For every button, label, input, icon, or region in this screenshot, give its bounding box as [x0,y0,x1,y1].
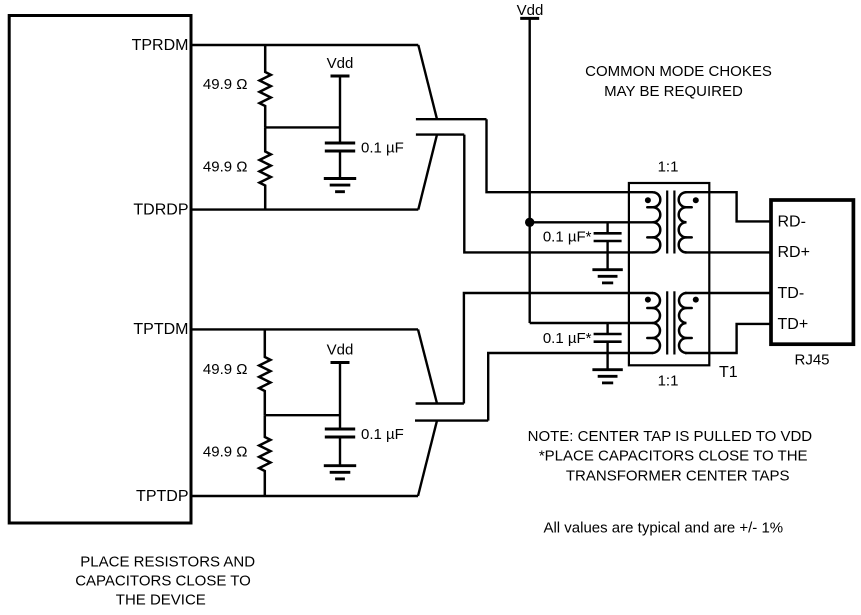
svg-text:TPTDM: TPTDM [133,321,188,338]
wire C3 to ground [606,241,608,270]
capacitor C2 0.1uF [325,428,355,431]
svg-text:MAY BE REQUIRED: MAY BE REQUIRED [604,83,743,100]
phase dot lower secondary [693,297,699,303]
svg-text:Vdd: Vdd [327,342,354,359]
wire TD+ jog [685,324,772,353]
svg-text:RD+: RD+ [778,244,810,261]
svg-text:TD+: TD+ [778,316,809,333]
resistor R3 49.9 ohm [259,329,270,415]
transformer T1 box [629,183,709,365]
IC device box [9,16,191,524]
svg-text:CAPACITORS CLOSE TO: CAPACITORS CLOSE TO [75,572,251,589]
svg-text:TPTDP: TPTDP [136,488,188,505]
T1 lower core [666,291,668,354]
T1 upper core [666,191,668,254]
wire stub1 to T1 primary top [487,119,654,192]
svg-text:0.1 µF*: 0.1 µF* [543,229,592,246]
svg-text:PLACE RESISTORS AND: PLACE RESISTORS AND [80,553,255,570]
wire node R3-R4 to C2 [265,414,340,416]
wire stub4 to T1 lower primary bottom [488,353,653,421]
svg-text:Vdd: Vdd [517,2,544,19]
Vdd symbol top [520,17,539,20]
choke stub lower-1 [416,402,464,404]
svg-text:RD-: RD- [778,214,806,231]
resistor R2 49.9 ohm [260,127,271,209]
ground C3 [592,268,622,271]
wire TPTDP diagonal [418,421,437,496]
wire tap to C4 [606,323,608,334]
svg-text:1:1: 1:1 [658,159,679,176]
svg-text:NOTE: CENTER TAP IS PULLED TO: NOTE: CENTER TAP IS PULLED TO VDD [528,428,813,445]
T1 lower primary winding [653,293,661,353]
wire C1 to ground [339,151,341,179]
resistor R1 49.9 ohm [260,45,271,127]
wire TPTDM [191,328,418,330]
wire upper center tap [530,221,653,223]
phase dot upper primary [645,197,651,203]
choke stub upper-1 [416,118,487,120]
phase dot lower primary [645,297,651,303]
capacitor C4 0.1uF* [594,333,622,336]
svg-text:49.9 Ω: 49.9 Ω [203,361,248,378]
capacitor C1 0.1uF [325,142,355,145]
svg-text:TD-: TD- [778,285,805,302]
wire Vdd to C1 [339,76,341,144]
T1 upper secondary winding [679,192,687,252]
Vdd symbol lower-left [331,361,350,364]
capacitor C3 0.1uF* [594,232,622,235]
svg-text:49.9 Ω: 49.9 Ω [203,444,248,461]
svg-text:0.1 µF*: 0.1 µF* [543,330,592,347]
svg-text:COMMON MODE CHOKES: COMMON MODE CHOKES [585,63,772,80]
wire TD- [685,292,772,294]
T1 lower secondary winding [679,293,686,353]
phase dot upper secondary [693,197,699,203]
svg-text:THE DEVICE: THE DEVICE [116,592,206,609]
wire TDRDP [191,208,418,210]
wire tap to C3 [606,222,608,233]
svg-text:49.9 Ω: 49.9 Ω [203,76,248,93]
wire TPTDM diagonal [418,329,437,403]
wire RD+ [685,251,772,253]
wire node R1-R2 to C1 [265,126,340,128]
svg-text:49.9 Ω: 49.9 Ω [203,159,248,176]
junction dot Vdd/upper tap [525,218,534,227]
wire TPRDM [191,44,418,46]
ground upper-left [324,177,356,180]
wire Vdd rail [529,18,531,323]
svg-text:1:1: 1:1 [658,373,679,390]
ground C4 [592,368,622,371]
wire TDRDP diagonal [418,135,437,210]
choke stub upper-2 [416,133,464,135]
wire lower center tap [530,322,653,324]
svg-text:TDRDP: TDRDP [133,201,188,218]
resistor R4 49.9 ohm [259,415,270,496]
Vdd symbol upper-left [331,75,350,78]
T1 upper primary winding [653,192,661,252]
svg-text:TPRDM: TPRDM [132,37,189,54]
svg-text:0.1 µF: 0.1 µF [361,139,404,156]
wire stub3 to T1 lower primary top [464,293,653,404]
choke stub lower-2 [415,419,488,421]
svg-text:0.1 µF: 0.1 µF [361,426,404,443]
wire TPRDM diagonal [418,45,437,119]
ground lower-left [324,464,356,467]
svg-text:RJ45: RJ45 [794,352,829,369]
svg-text:Vdd: Vdd [327,55,354,72]
wire Vdd to C2 [339,363,341,430]
wire TPTDP [191,495,418,497]
wire stub2 to T1 primary bottom [464,135,653,253]
RJ45 box [771,200,853,344]
wire C2 to ground [339,437,341,466]
wire C4 to ground [606,342,608,370]
svg-text:*PLACE CAPACITORS CLOSE TO THE: *PLACE CAPACITORS CLOSE TO THE [539,448,808,465]
wire RD- jog [685,192,772,221]
svg-text:TRANSFORMER CENTER TAPS: TRANSFORMER CENTER TAPS [566,467,790,484]
svg-text:All values are typical and are: All values are typical and are +/- 1% [543,520,783,537]
svg-text:T1: T1 [719,364,738,381]
